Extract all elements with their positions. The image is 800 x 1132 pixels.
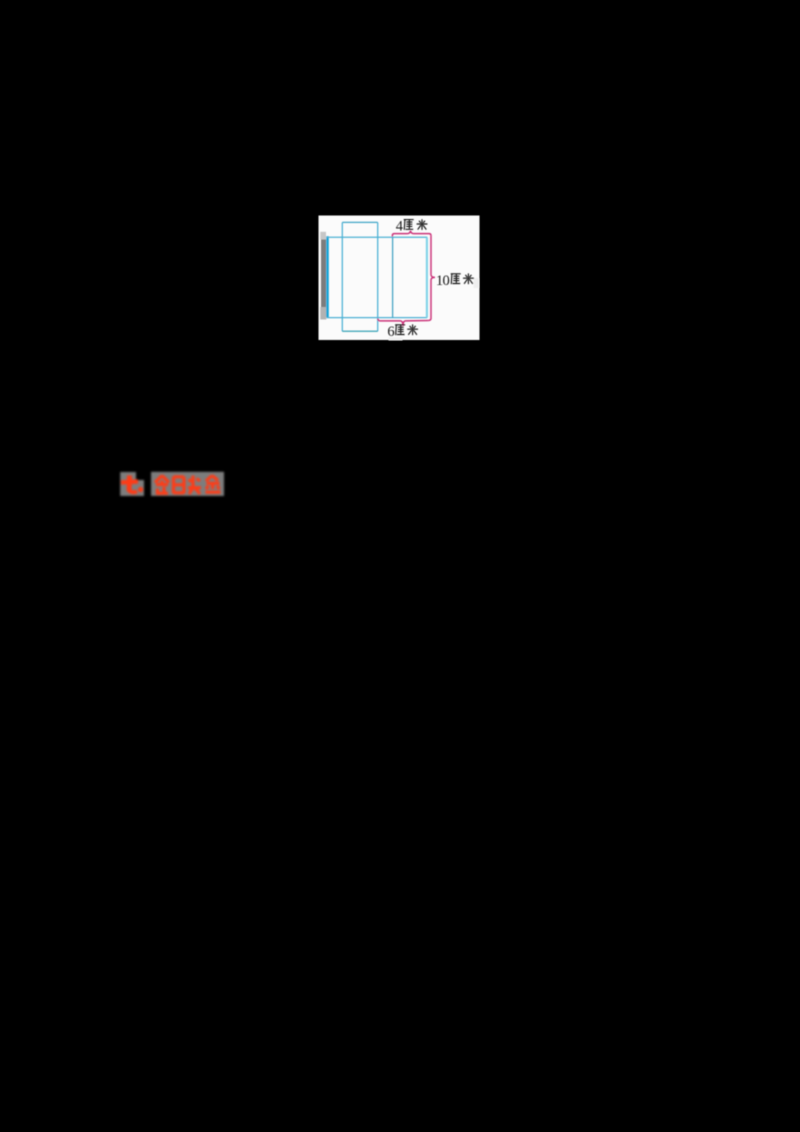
厘 of 6厘米 [395,325,405,335]
top brace 4cm [392,231,431,237]
brand chars (pseudo) [155,476,221,495]
diagram: net of rectangular box on white panel [300,200,500,360]
faint smudge under 6cm label [389,337,403,340]
labels [387,218,473,339]
right brace 10cm [428,236,435,321]
column left edge [341,222,343,331]
米 of 4厘米 [417,219,428,230]
svg-text:4: 4 [396,218,404,234]
band top edge [327,236,428,238]
char1 [155,476,169,495]
right rect right edge [426,238,428,318]
column top cap [342,221,377,223]
text tile [151,472,224,496]
gray tab bar left [320,232,326,240]
svg-text:6: 6 [387,324,394,340]
char3 [188,476,201,495]
logo tile (stepped) [120,472,144,496]
band bottom edge [327,317,428,319]
orange t glyph [121,476,143,493]
米 of 10厘米 [463,273,474,284]
column bottom cap [342,330,377,332]
pink braces [378,231,435,326]
厘 of 4厘米 [404,220,414,230]
char4 [206,476,221,493]
column right edge [377,222,379,331]
faint smudge right of 10cm label [474,278,480,288]
厘 of 10厘米 [451,274,461,284]
svg-text:10: 10 [436,273,450,289]
thick cyan left edge [326,236,329,317]
right rect left edge [392,237,394,317]
米 of 6厘米 [407,324,418,335]
cyan net lines [327,222,428,331]
watermark: logo + brand text [110,458,240,506]
char2 [174,477,185,494]
bottom brace 6cm [378,319,428,326]
white panel [319,216,480,341]
